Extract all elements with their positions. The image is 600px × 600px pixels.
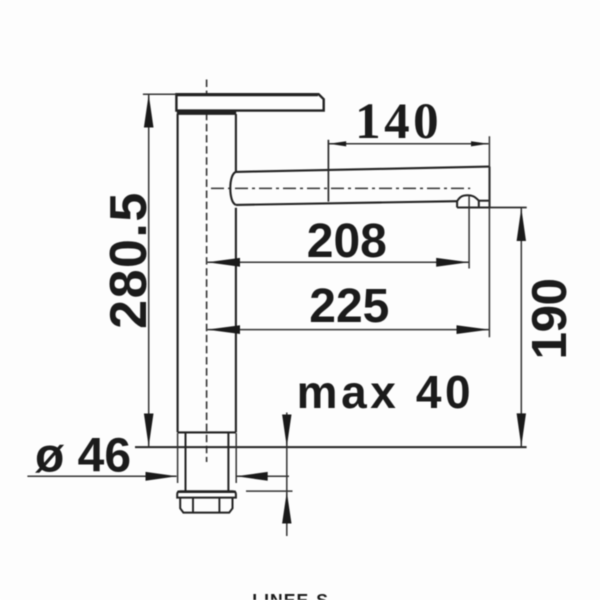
svg-text:190: 190 bbox=[522, 278, 577, 359]
svg-text:208: 208 bbox=[307, 215, 387, 268]
svg-text:225: 225 bbox=[309, 280, 389, 333]
svg-text:140: 140 bbox=[355, 94, 442, 150]
svg-text:ø 46: ø 46 bbox=[35, 430, 131, 483]
svg-text:LINEE-S: LINEE-S bbox=[252, 590, 329, 600]
svg-text:max 40: max 40 bbox=[297, 366, 475, 418]
svg-text:280.5: 280.5 bbox=[100, 191, 158, 329]
